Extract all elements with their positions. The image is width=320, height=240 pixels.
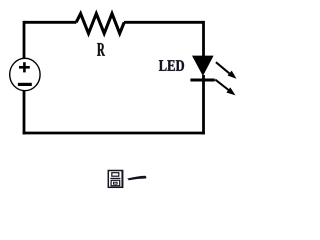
wire top-left segment [24,21,76,24]
label R [97,43,105,56]
resistor R1 [76,14,124,34]
caption glyph 一 [128,176,146,180]
voltage source V1 [10,58,40,90]
LED light arrow 1 [216,62,237,79]
wire right vertical bottom [202,75,205,134]
caption glyph 圖 [108,170,122,188]
wire bottom [23,132,205,135]
wire left vertical bottom [23,90,26,134]
LED light arrow 2 [215,80,235,96]
label LED [159,60,184,71]
wire top-right segment [124,21,204,24]
LED triangle (anode) [192,56,214,76]
LED cathode bar [190,79,214,82]
wire right vertical top [202,21,205,57]
wire left vertical top [23,21,26,59]
